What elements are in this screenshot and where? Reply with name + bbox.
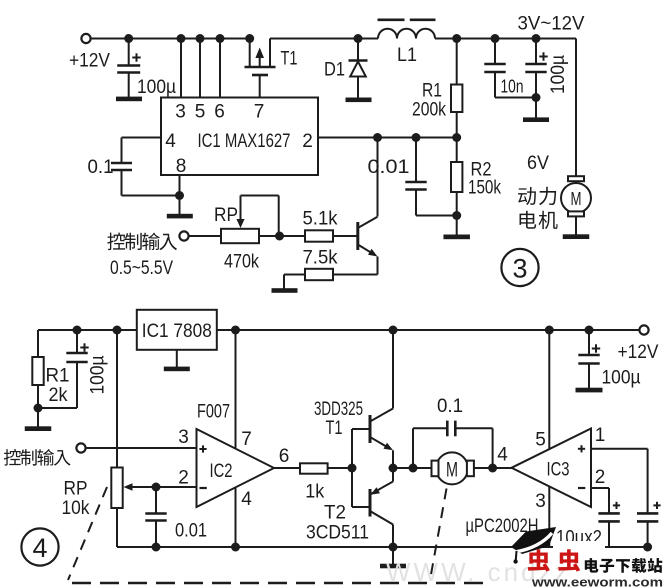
wire pin3	[180, 39, 182, 98]
svg-text:10k: 10k	[62, 498, 90, 519]
svg-text:5: 5	[535, 430, 546, 451]
ground 7.5k	[272, 275, 298, 293]
node R2 bottom	[452, 211, 461, 220]
ground D1	[346, 98, 372, 103]
node 100u bl	[73, 326, 82, 335]
wire pin2 net	[591, 488, 609, 513]
label 10ux2	[556, 528, 602, 549]
node pin3	[177, 34, 186, 43]
capacitor 100u input	[117, 39, 176, 99]
svg-text:100µ: 100µ	[88, 355, 109, 394]
transistor T1 3DD325	[314, 330, 393, 468]
logo chongchong red	[528, 549, 580, 571]
inductor L1	[378, 20, 436, 66]
node 10n	[491, 34, 500, 43]
label control input bottom	[4, 449, 71, 466]
wire bottom rail	[117, 546, 648, 548]
svg-text:M: M	[571, 189, 582, 209]
node D1	[354, 34, 363, 43]
svg-text:100µ: 100µ	[548, 55, 569, 94]
wire IC3 supply	[548, 330, 550, 547]
node RP wiper	[275, 232, 284, 241]
wire top rail right	[435, 38, 576, 40]
svg-text:470k: 470k	[224, 252, 259, 273]
svg-text:F007: F007	[197, 402, 230, 423]
svg-text:100µ: 100µ	[137, 77, 176, 98]
svg-text:6V: 6V	[527, 153, 549, 174]
svg-text:7: 7	[254, 102, 265, 123]
potentiometer RP 10k	[62, 330, 157, 547]
wire top rail mid	[270, 38, 378, 40]
logo site name	[585, 558, 663, 573]
svg-text:0.1: 0.1	[88, 157, 114, 178]
wire RP to 5.1k	[259, 235, 305, 237]
capacitor 0.1	[88, 157, 180, 195]
wire to motor	[575, 39, 577, 184]
wire IC2 supply	[235, 330, 237, 547]
potentiometer RP 470k	[214, 196, 279, 273]
svg-text:5: 5	[195, 102, 206, 123]
terminal control bottom	[76, 443, 85, 452]
label 3V~12V	[518, 14, 585, 35]
svg-text:IC2: IC2	[210, 461, 233, 482]
node pin6	[216, 34, 225, 43]
node output cap top	[532, 34, 541, 43]
circled 3	[501, 249, 538, 286]
svg-text:4: 4	[241, 489, 252, 510]
wire pin5	[199, 39, 201, 98]
svg-text:3: 3	[175, 102, 186, 123]
svg-text:5.1k: 5.1k	[303, 209, 338, 230]
node 100u br top	[585, 326, 594, 335]
node IC3 supply top	[545, 326, 554, 335]
wire base split	[352, 429, 370, 507]
wire control to RP	[189, 235, 221, 237]
wire Q collector	[377, 138, 379, 217]
node emitters	[389, 464, 398, 473]
svg-text:+12V: +12V	[618, 342, 659, 363]
wire pin4	[122, 138, 162, 164]
op-amp IC3 uPC2002H	[512, 425, 606, 512]
capacitor 0.01	[368, 138, 457, 216]
svg-text:R1: R1	[46, 366, 70, 387]
wire emitters to motor	[393, 467, 432, 469]
terminal +12V input	[69, 34, 110, 72]
capacitor 10u left	[598, 502, 620, 547]
node R1 top	[452, 34, 461, 43]
svg-text:0.01: 0.01	[175, 521, 207, 542]
svg-text:150k: 150k	[468, 178, 501, 199]
node T2 collector bottom	[389, 543, 398, 552]
svg-text:T1: T1	[281, 49, 298, 70]
svg-text:6: 6	[279, 446, 290, 467]
resistor 5.1k	[303, 209, 357, 242]
svg-text:2: 2	[302, 131, 313, 152]
node pin8 gnd	[175, 191, 184, 200]
terminal +12V bottom	[618, 325, 659, 363]
svg-text:7: 7	[241, 429, 252, 450]
circled 4	[21, 528, 58, 565]
node T1b collector top	[389, 326, 398, 335]
wire control to pin3	[86, 447, 197, 449]
svg-text:200k: 200k	[412, 100, 446, 121]
terminal control top	[179, 231, 188, 240]
svg-text:4: 4	[32, 533, 47, 563]
node IC2 pin4 bottom	[231, 543, 240, 552]
ground pin8	[167, 214, 193, 219]
op-amp IC2 F007	[178, 402, 274, 511]
ground R2	[443, 235, 470, 240]
node Q collector	[373, 133, 382, 142]
capacitor 100u output	[525, 39, 569, 119]
svg-text:+12V: +12V	[69, 51, 110, 72]
node R1 2k bottom	[34, 404, 43, 413]
transistor T1 MOSFET	[245, 39, 298, 98]
wire pin6	[219, 39, 221, 98]
capacitor 100u bottom right	[578, 330, 640, 389]
node motor right	[488, 444, 508, 472]
svg-text:10n: 10n	[501, 76, 524, 96]
resistor 7.5k	[284, 248, 378, 281]
ground R1 2k	[25, 426, 52, 431]
svg-text:RP: RP	[64, 479, 88, 500]
svg-text:0.1: 0.1	[437, 396, 463, 417]
node 10n bottom	[532, 93, 541, 102]
svg-text:L1: L1	[397, 45, 417, 66]
svg-text:3DD325: 3DD325	[314, 399, 363, 420]
regulator IC1 7808	[137, 310, 217, 350]
svg-text:D1: D1	[324, 60, 345, 81]
resistor R2 150k	[451, 138, 501, 237]
wire bottom top rail	[38, 329, 639, 331]
dashed boundary horizontal	[72, 582, 492, 585]
motor M bottom	[432, 452, 513, 484]
logo url	[531, 576, 663, 588]
svg-text:2: 2	[178, 468, 189, 489]
pin labels IC1	[165, 102, 313, 177]
svg-text:4: 4	[497, 444, 508, 465]
resistor 1k	[300, 463, 352, 502]
node T1 drain	[245, 34, 254, 43]
ground motor	[563, 234, 590, 239]
transistor Q1 NPN	[358, 217, 378, 275]
label 6V motor	[518, 153, 558, 229]
node junction 100u	[124, 34, 133, 43]
op-amp IC1 MAX1627 box	[161, 98, 318, 176]
node motor left	[409, 464, 418, 473]
capacitor 10u right	[637, 502, 661, 547]
capacitor 10n	[484, 39, 536, 98]
svg-text:IC1 MAX1627: IC1 MAX1627	[198, 131, 291, 152]
capacitor 0.01 bottom	[145, 487, 207, 547]
svg-text:IC1 7808: IC1 7808	[142, 321, 212, 342]
svg-text:T1: T1	[326, 418, 343, 439]
watermark gray text	[386, 557, 571, 587]
svg-text:1: 1	[595, 425, 606, 446]
svg-text:3CD511: 3CD511	[306, 523, 369, 544]
node base junction	[348, 464, 357, 473]
svg-text:6: 6	[214, 102, 225, 123]
dashed boundary diagonal right	[430, 489, 447, 581]
node pin5	[196, 34, 205, 43]
svg-text:3V~12V: 3V~12V	[518, 14, 585, 35]
svg-text:0.01: 0.01	[368, 157, 410, 178]
node pin2 wiper	[152, 483, 161, 492]
ground 7808	[164, 350, 190, 371]
wire top rail left	[91, 38, 251, 40]
transistor T2 3CD511	[306, 468, 393, 547]
node RP divider top	[113, 326, 122, 335]
svg-text:3: 3	[535, 491, 546, 512]
wire IC2 out	[274, 446, 300, 468]
svg-text:100µ: 100µ	[602, 368, 641, 389]
resistor R1 200k	[412, 39, 462, 138]
logo cap	[511, 527, 556, 564]
motor M 6V	[561, 176, 591, 236]
svg-text:8: 8	[176, 156, 187, 177]
dashed boundary diagonal left	[68, 487, 107, 580]
label uPC2002H	[466, 516, 539, 537]
node pin2 R2	[452, 133, 461, 142]
label control input top	[107, 233, 177, 280]
resistor R1 2k	[32, 330, 69, 427]
svg-text:IC3: IC3	[547, 460, 570, 481]
svg-text:3: 3	[512, 253, 527, 283]
svg-text:0.5~5.5V: 0.5~5.5V	[110, 258, 173, 279]
ground T2	[380, 547, 406, 568]
wire pin1 net	[591, 449, 648, 514]
svg-text:3: 3	[178, 427, 189, 448]
node 0.01b bottom	[152, 543, 161, 552]
ground input cap	[116, 97, 142, 102]
capacitor 0.1 bottom	[413, 396, 493, 468]
node 0.01 top	[412, 133, 421, 142]
svg-text:7.5k: 7.5k	[303, 248, 338, 269]
wire pin8	[179, 175, 181, 214]
svg-text:2k: 2k	[49, 385, 68, 406]
node IC2 pin7 top	[231, 326, 240, 335]
svg-text:M: M	[446, 458, 458, 481]
svg-text:2: 2	[595, 467, 606, 488]
svg-text:1k: 1k	[305, 482, 324, 503]
wire pin2 IC2	[156, 486, 197, 488]
svg-text:www.eeworm.com: www.eeworm.com	[531, 576, 663, 588]
wire pin2	[318, 137, 457, 139]
capacitor 100u bottom left	[38, 330, 109, 408]
logo white backdrop	[553, 541, 605, 554]
svg-text:R1: R1	[422, 81, 442, 102]
ground 100u br	[576, 388, 603, 393]
svg-text:RP: RP	[214, 205, 238, 226]
svg-text:T2: T2	[324, 503, 346, 524]
ground output cap	[523, 117, 549, 122]
svg-text:4: 4	[165, 131, 176, 152]
diode D1	[324, 39, 368, 99]
node 10u right bottom	[643, 543, 652, 552]
